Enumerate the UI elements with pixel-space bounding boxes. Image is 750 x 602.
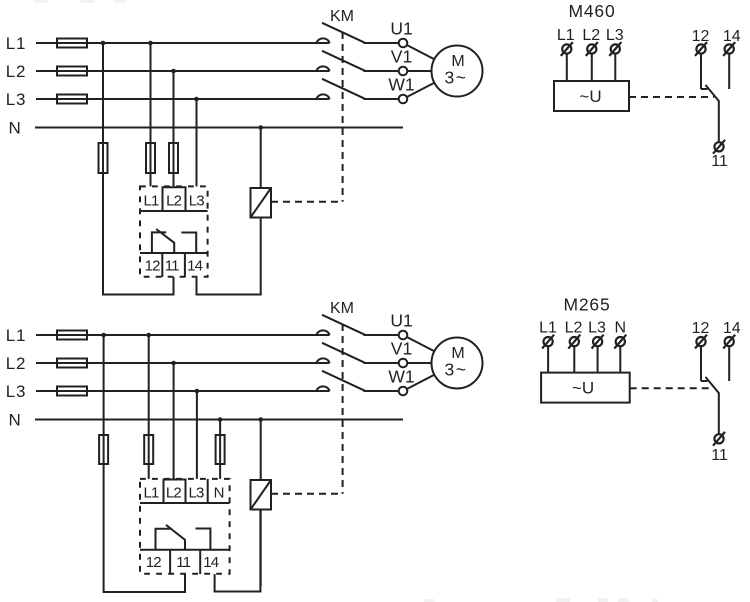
svg-text:L1: L1	[143, 485, 159, 502]
svg-text:N: N	[214, 485, 224, 502]
svg-text:L3: L3	[606, 27, 624, 44]
svg-text:U1: U1	[390, 19, 412, 39]
svg-text:12: 12	[146, 554, 162, 571]
svg-text:11: 11	[711, 153, 728, 170]
svg-text:~U: ~U	[579, 87, 601, 106]
svg-text:14: 14	[723, 320, 741, 337]
svg-text:M265: M265	[564, 295, 611, 315]
svg-text:U1: U1	[390, 311, 412, 331]
svg-text:L3: L3	[6, 382, 27, 401]
svg-text:V1: V1	[391, 339, 412, 359]
svg-text:L3: L3	[189, 193, 205, 210]
svg-text:L2: L2	[565, 319, 583, 336]
svg-text:M460: M460	[569, 1, 616, 21]
svg-text:L1: L1	[143, 193, 159, 210]
svg-text:L2: L2	[166, 485, 182, 502]
svg-text:L3: L3	[588, 319, 606, 336]
svg-text:L1: L1	[6, 34, 27, 53]
svg-text:L2: L2	[166, 193, 182, 210]
svg-text:W1: W1	[388, 367, 414, 387]
svg-text:L1: L1	[557, 27, 575, 44]
svg-text:KM: KM	[330, 300, 354, 317]
svg-text:L2: L2	[6, 62, 27, 81]
svg-text:N: N	[615, 319, 627, 336]
svg-text:14: 14	[187, 258, 203, 275]
svg-text:~U: ~U	[572, 379, 594, 398]
svg-text:N: N	[8, 118, 21, 137]
svg-text:14: 14	[723, 28, 741, 45]
svg-text:11: 11	[165, 258, 179, 275]
svg-text:W1: W1	[388, 75, 414, 95]
svg-text:V1: V1	[391, 47, 412, 67]
svg-text:11: 11	[176, 554, 190, 571]
svg-text:L2: L2	[6, 354, 27, 373]
svg-text:3~: 3~	[445, 67, 468, 87]
svg-text:12: 12	[145, 258, 161, 275]
svg-text:N: N	[8, 410, 21, 429]
svg-text:11: 11	[711, 447, 728, 464]
svg-text:L2: L2	[582, 27, 600, 44]
svg-text:3~: 3~	[445, 359, 468, 379]
svg-text:12: 12	[692, 320, 710, 337]
svg-text:L3: L3	[6, 90, 27, 109]
svg-text:KM: KM	[330, 8, 354, 25]
svg-text:14: 14	[203, 554, 219, 571]
svg-text:L1: L1	[6, 326, 27, 345]
svg-text:L1: L1	[539, 319, 557, 336]
svg-text:L3: L3	[188, 485, 204, 502]
